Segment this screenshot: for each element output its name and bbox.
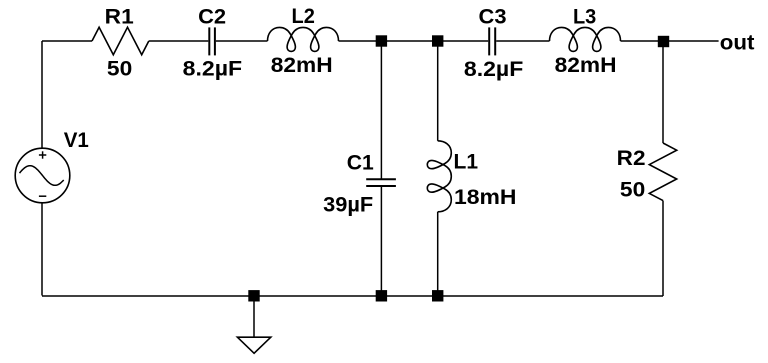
wire: R1 to C2: [149, 40, 209, 42]
wire: C1 branch bottom: [380, 187, 382, 296]
svg-text:8.2µF: 8.2µF: [183, 57, 242, 81]
capacitor C1: [366, 179, 396, 186]
svg-text:R1: R1: [105, 4, 134, 28]
svg-text:8.2µF: 8.2µF: [464, 57, 523, 81]
junction node ground: [248, 290, 259, 301]
capacitor C2: [209, 27, 215, 55]
wire: C3 to L3: [496, 40, 549, 42]
inductor L2: [268, 27, 339, 51]
junction node L1 bottom: [432, 290, 443, 301]
wire: L2 to C3 through shunt nodes: [339, 40, 489, 42]
wire: bottom rail: [42, 295, 663, 297]
svg-text:out: out: [720, 31, 755, 55]
svg-text:L1: L1: [454, 149, 479, 173]
svg-text:50: 50: [107, 57, 132, 81]
svg-text:C1: C1: [347, 150, 374, 174]
voltage source V1: [15, 148, 70, 203]
wire: top rail from V1 to R1: [42, 40, 92, 42]
ground symbol: [237, 296, 270, 353]
svg-text:82mH: 82mH: [271, 53, 333, 77]
resistor R1: [92, 27, 149, 55]
junction node C1 bottom: [376, 290, 387, 301]
wire: C2 to L2: [216, 40, 268, 42]
svg-text:39µF: 39µF: [323, 193, 373, 217]
svg-text:R2: R2: [617, 146, 646, 170]
junction node out: [658, 36, 669, 47]
capacitor C3: [489, 27, 495, 55]
svg-text:C3: C3: [479, 4, 507, 28]
inductor L1: [427, 141, 451, 212]
svg-text:18mH: 18mH: [454, 185, 517, 209]
resistor R2: [649, 143, 676, 201]
wire: left rail V1 top: [41, 41, 43, 148]
wire: C1 branch top: [380, 41, 382, 179]
junction node at C1 top: [376, 35, 387, 46]
junction node at L1 top: [432, 35, 443, 46]
svg-text:50: 50: [620, 178, 645, 202]
svg-text:C2: C2: [198, 4, 226, 28]
inductor L3: [550, 27, 621, 51]
svg-text:L3: L3: [573, 4, 596, 28]
svg-text:V1: V1: [64, 128, 89, 152]
svg-text:L2: L2: [292, 4, 315, 28]
wire: out node down to R2: [662, 41, 664, 143]
wire: left rail V1 bottom: [41, 203, 43, 296]
wire: L1 branch top: [437, 41, 439, 141]
wire: L3 to out node: [621, 40, 719, 42]
svg-text:82mH: 82mH: [555, 53, 617, 77]
wire: L1 branch bottom: [437, 212, 439, 296]
